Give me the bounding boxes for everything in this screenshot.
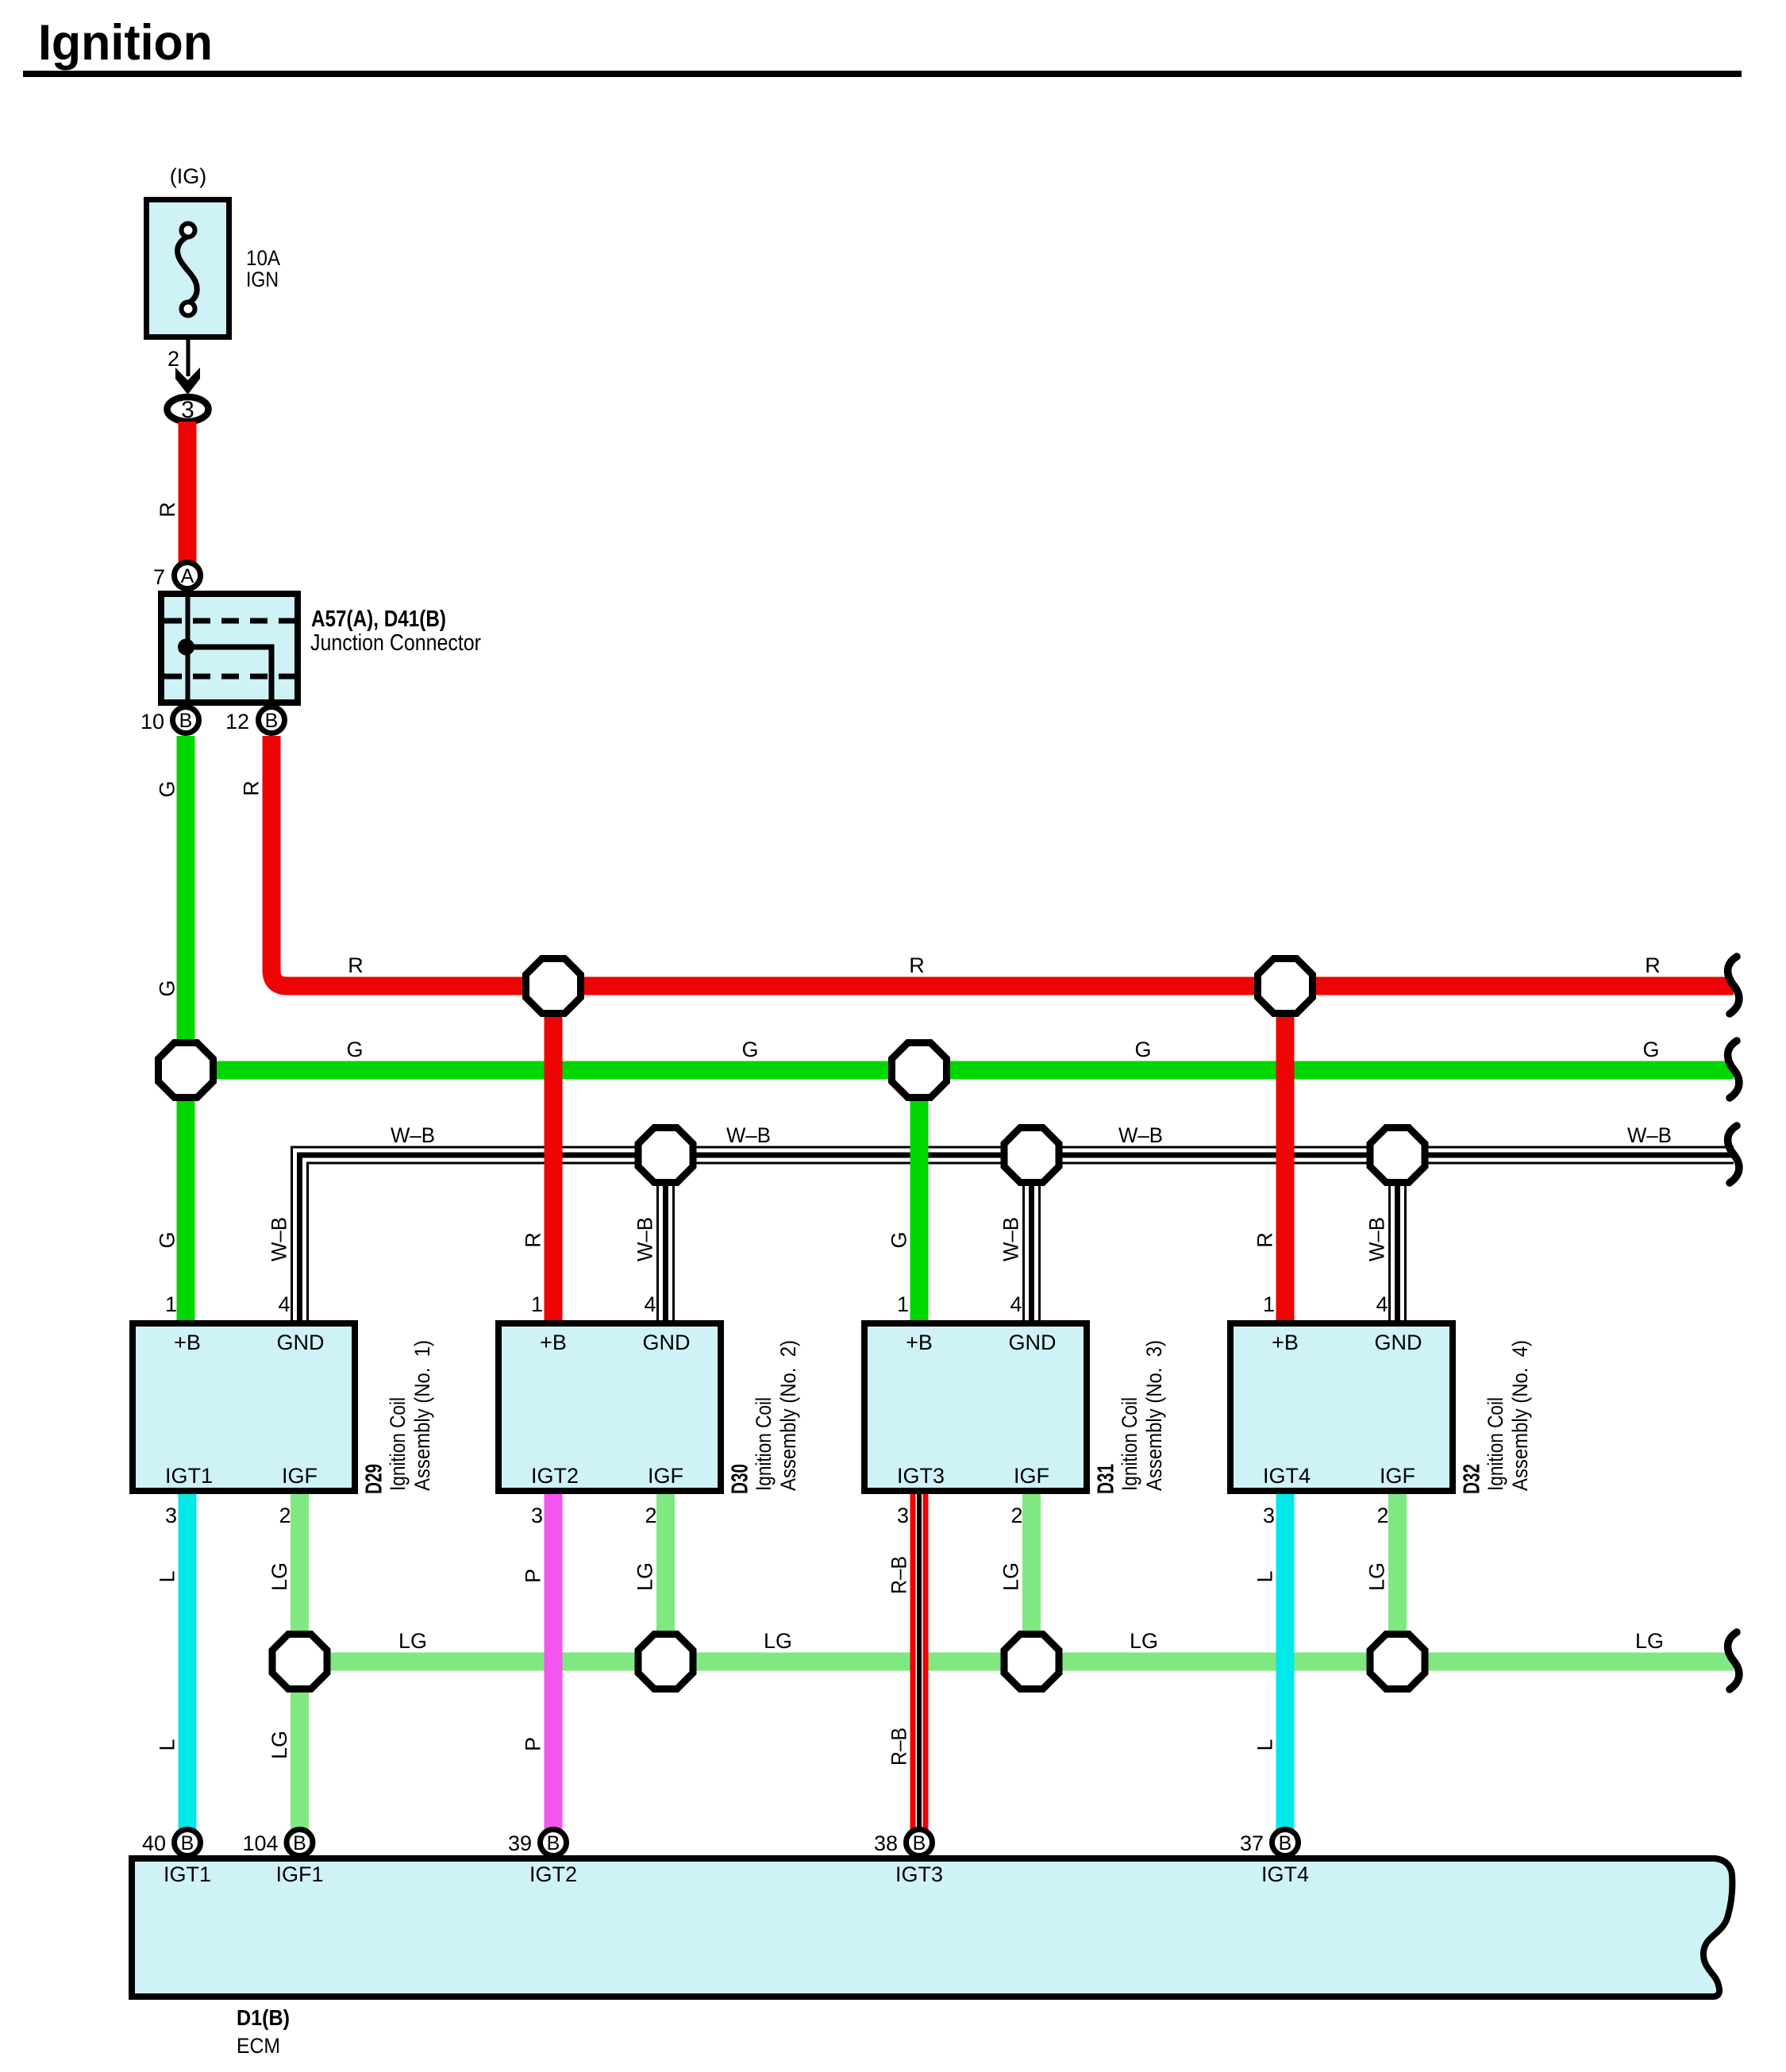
svg-text:B: B (1279, 1832, 1292, 1854)
svg-text:+B: +B (1272, 1331, 1299, 1354)
svg-text:G: G (1642, 1038, 1659, 1061)
node 3 (167, 397, 209, 423)
wire R coil 2 feeder (522, 986, 554, 1323)
splice R bus (526, 959, 581, 1014)
splice W-B bus (638, 1128, 693, 1183)
svg-text:+B: +B (906, 1331, 933, 1354)
svg-text:7: 7 (153, 565, 165, 589)
wire W-B GND coil 4 (1390, 1155, 1406, 1323)
svg-text:1: 1 (165, 1292, 177, 1316)
svg-text:3: 3 (897, 1504, 909, 1527)
wire break mark (1728, 1041, 1739, 1098)
ignition coil D31 (No. 3) (864, 1292, 1166, 1527)
svg-text:A: A (181, 565, 194, 587)
svg-text:GND: GND (277, 1331, 325, 1354)
arrow (175, 368, 200, 395)
svg-text:D32: D32 (1460, 1464, 1485, 1494)
splice LG bus (1004, 1635, 1059, 1689)
labels W-B bus (391, 1123, 1672, 1147)
svg-text:+B: +B (540, 1331, 567, 1354)
svg-text:Ignition: Ignition (38, 15, 213, 71)
svg-text:4: 4 (1376, 1292, 1388, 1316)
svg-text:LG: LG (398, 1629, 427, 1653)
wire R coil 4 feeder (1253, 986, 1286, 1323)
svg-text:LG: LG (1365, 1562, 1389, 1591)
label W-B coil 2 (633, 1217, 657, 1261)
pin 10 B (140, 707, 199, 734)
svg-text:LG: LG (1635, 1629, 1664, 1653)
svg-text:LG: LG (268, 1731, 291, 1759)
svg-text:Junction Connector: Junction Connector (310, 630, 481, 656)
svg-text:IGF: IGF (282, 1464, 318, 1488)
svg-text:2: 2 (1010, 1504, 1022, 1527)
splice G bus (159, 1043, 214, 1098)
svg-text:W–B: W–B (1365, 1217, 1389, 1261)
wire R-B IGT3 (887, 1491, 920, 1830)
svg-text:IGT4: IGT4 (1263, 1464, 1311, 1488)
svg-text:G: G (1134, 1038, 1151, 1061)
svg-text:R–B: R–B (887, 1727, 911, 1766)
svg-text:LG: LG (633, 1562, 657, 1591)
svg-text:R: R (1253, 1232, 1277, 1248)
svg-text:IGT1: IGT1 (164, 1862, 211, 1886)
wire R fuse to junction (156, 422, 197, 563)
label W-B coil 1 (268, 1217, 291, 1261)
pin 7 A (153, 563, 201, 590)
svg-text:Ignition Coil: Ignition Coil (752, 1397, 776, 1491)
splice R bus (1258, 959, 1313, 1014)
ignition coil D30 (No. 2) (498, 1292, 800, 1527)
svg-text:40: 40 (142, 1831, 166, 1855)
svg-text:38: 38 (874, 1831, 898, 1855)
svg-text:ECM: ECM (237, 2034, 280, 2058)
svg-text:P: P (522, 1737, 545, 1751)
svg-text:L: L (1253, 1739, 1277, 1750)
svg-text:12: 12 (225, 710, 249, 734)
svg-text:Assembly (No. 1): Assembly (No. 1) (410, 1340, 434, 1491)
title Ignition (23, 15, 1742, 77)
svg-text:A57(A), D41(B): A57(A), D41(B) (311, 607, 446, 632)
label W-B coil 3 (999, 1217, 1023, 1261)
splice LG bus (1370, 1635, 1425, 1689)
svg-text:1: 1 (1263, 1292, 1275, 1316)
svg-text:Ignition Coil: Ignition Coil (1484, 1397, 1507, 1491)
svg-text:Ignition Coil: Ignition Coil (386, 1397, 410, 1491)
svg-text:B: B (179, 710, 193, 732)
wire L IGT4 (1253, 1491, 1286, 1830)
svg-text:IGF: IGF (1014, 1464, 1049, 1488)
wire LG IGF coil 2 (633, 1491, 666, 1662)
labels LG bus (398, 1629, 1664, 1653)
svg-text:2: 2 (279, 1504, 291, 1527)
wire LG IGF bus (300, 1653, 1734, 1671)
svg-text:2: 2 (167, 347, 179, 371)
svg-text:B: B (265, 710, 279, 732)
svg-text:IGF1: IGF1 (275, 1862, 323, 1886)
svg-text:3: 3 (165, 1504, 177, 1527)
svg-text:Ignition Coil: Ignition Coil (1118, 1397, 1141, 1491)
splice LG bus (272, 1635, 327, 1689)
svg-text:G: G (156, 1231, 179, 1248)
svg-text:LG: LG (764, 1629, 792, 1653)
wire W-B GND coil 2 (658, 1155, 674, 1323)
wire P IGT2 (522, 1491, 554, 1830)
splice W-B bus (1370, 1128, 1425, 1183)
svg-text:2: 2 (645, 1504, 656, 1527)
svg-text:4: 4 (644, 1292, 656, 1316)
svg-text:W–B: W–B (1118, 1123, 1163, 1147)
wire L IGT1 (156, 1491, 188, 1830)
svg-text:GND: GND (1375, 1331, 1422, 1354)
pin 12 B (225, 707, 285, 734)
svg-text:R: R (909, 953, 925, 977)
svg-text:W–B: W–B (1627, 1123, 1672, 1147)
wire W-B ground bus (292, 1147, 1734, 1323)
wire G coil 3 feeder (887, 1070, 920, 1323)
svg-text:D31: D31 (1094, 1464, 1119, 1494)
svg-text:P: P (522, 1569, 545, 1583)
svg-text:Assembly (No. 2): Assembly (No. 2) (776, 1340, 800, 1491)
svg-text:10A: 10A (246, 246, 280, 270)
pin 2 lead (167, 340, 191, 376)
svg-text:D1(B): D1(B) (237, 2005, 290, 2030)
svg-text:R: R (1645, 953, 1661, 977)
wire R power bus (240, 736, 1734, 986)
wire LG IGF1 (268, 1491, 300, 1830)
svg-text:B: B (181, 1832, 194, 1854)
svg-text:LG: LG (268, 1562, 291, 1591)
svg-text:GND: GND (643, 1331, 691, 1354)
wire LG IGF coil 3 (999, 1491, 1032, 1662)
svg-text:IGT2: IGT2 (529, 1862, 577, 1886)
svg-text:W–B: W–B (391, 1123, 435, 1147)
svg-text:R: R (348, 953, 364, 977)
wire G junction to coil 1 (156, 736, 187, 1323)
svg-text:D29: D29 (362, 1464, 387, 1494)
ignition coil D29 (No. 1) (133, 1292, 434, 1527)
svg-text:LG: LG (1130, 1629, 1158, 1653)
svg-text:W–B: W–B (268, 1217, 291, 1261)
junction connector A57(A), D41(B) (161, 591, 481, 706)
svg-text:2: 2 (1376, 1504, 1388, 1527)
svg-text:3: 3 (1263, 1504, 1275, 1527)
label W-B coil 4 (1365, 1217, 1389, 1261)
svg-text:IGT1: IGT1 (165, 1464, 213, 1488)
pin 39 B IGT2 (508, 1830, 577, 1887)
svg-text:G: G (887, 1231, 911, 1248)
splice W-B bus (1004, 1128, 1059, 1183)
svg-text:W–B: W–B (633, 1217, 657, 1261)
svg-text:L: L (156, 1739, 179, 1750)
svg-text:IGT3: IGT3 (897, 1464, 945, 1488)
svg-text:+B: +B (174, 1331, 201, 1354)
svg-text:IGF: IGF (1380, 1464, 1415, 1488)
wire break mark (1728, 957, 1739, 1014)
svg-text:1: 1 (897, 1292, 909, 1316)
svg-text:1: 1 (531, 1292, 543, 1316)
pin 104 B IGF1 (242, 1830, 323, 1887)
wire G power bus (186, 1061, 1734, 1080)
svg-text:3: 3 (181, 397, 194, 423)
splice LG bus (638, 1635, 693, 1689)
svg-text:IGT4: IGT4 (1261, 1862, 1309, 1886)
wire W-B GND coil 3 (1024, 1155, 1040, 1323)
fuse 10A IGN (147, 164, 281, 337)
ECM D1(B) (132, 1858, 1732, 2058)
svg-text:LG: LG (999, 1562, 1023, 1591)
svg-text:IGN: IGN (246, 268, 279, 291)
svg-text:IGT2: IGT2 (531, 1464, 579, 1488)
svg-text:3: 3 (531, 1504, 543, 1527)
svg-text:G: G (156, 780, 179, 797)
svg-text:R: R (240, 780, 264, 796)
svg-text:W–B: W–B (999, 1217, 1023, 1261)
svg-text:R–B: R–B (887, 1556, 911, 1594)
wire LG IGF coil 4 (1365, 1491, 1398, 1662)
svg-text:(IG): (IG) (170, 164, 207, 188)
svg-text:GND: GND (1009, 1331, 1057, 1354)
svg-text:4: 4 (1010, 1292, 1022, 1316)
wire break mark (1728, 1632, 1739, 1689)
labels G bus (346, 1038, 1659, 1061)
svg-text:IGT3: IGT3 (895, 1862, 943, 1886)
svg-text:G: G (741, 1038, 758, 1061)
svg-text:IGF: IGF (648, 1464, 683, 1488)
svg-text:R: R (522, 1232, 545, 1248)
svg-text:B: B (547, 1832, 560, 1854)
pin 40 B IGT1 (142, 1830, 211, 1887)
svg-text:39: 39 (508, 1831, 532, 1855)
pin 38 B IGT3 (874, 1830, 943, 1887)
svg-text:37: 37 (1240, 1831, 1264, 1855)
svg-text:G: G (346, 1038, 363, 1061)
wire break mark (1728, 1126, 1739, 1183)
svg-text:R: R (156, 502, 179, 518)
ignition coil D32 (No. 4) (1230, 1292, 1532, 1527)
svg-text:L: L (156, 1570, 179, 1582)
svg-text:Assembly (No. 4): Assembly (No. 4) (1508, 1340, 1532, 1491)
pin 37 B IGT4 (1240, 1830, 1309, 1887)
svg-text:B: B (913, 1832, 926, 1854)
svg-text:L: L (1253, 1570, 1277, 1582)
labels R bus (348, 953, 1661, 977)
svg-text:104: 104 (242, 1831, 278, 1855)
svg-text:B: B (293, 1832, 306, 1854)
svg-text:G: G (156, 980, 179, 996)
svg-text:D30: D30 (728, 1464, 753, 1494)
splice G bus (892, 1043, 947, 1098)
svg-text:W–B: W–B (726, 1123, 771, 1147)
svg-text:4: 4 (278, 1292, 290, 1316)
svg-text:10: 10 (140, 710, 164, 734)
svg-text:Assembly (No. 3): Assembly (No. 3) (1142, 1340, 1166, 1491)
